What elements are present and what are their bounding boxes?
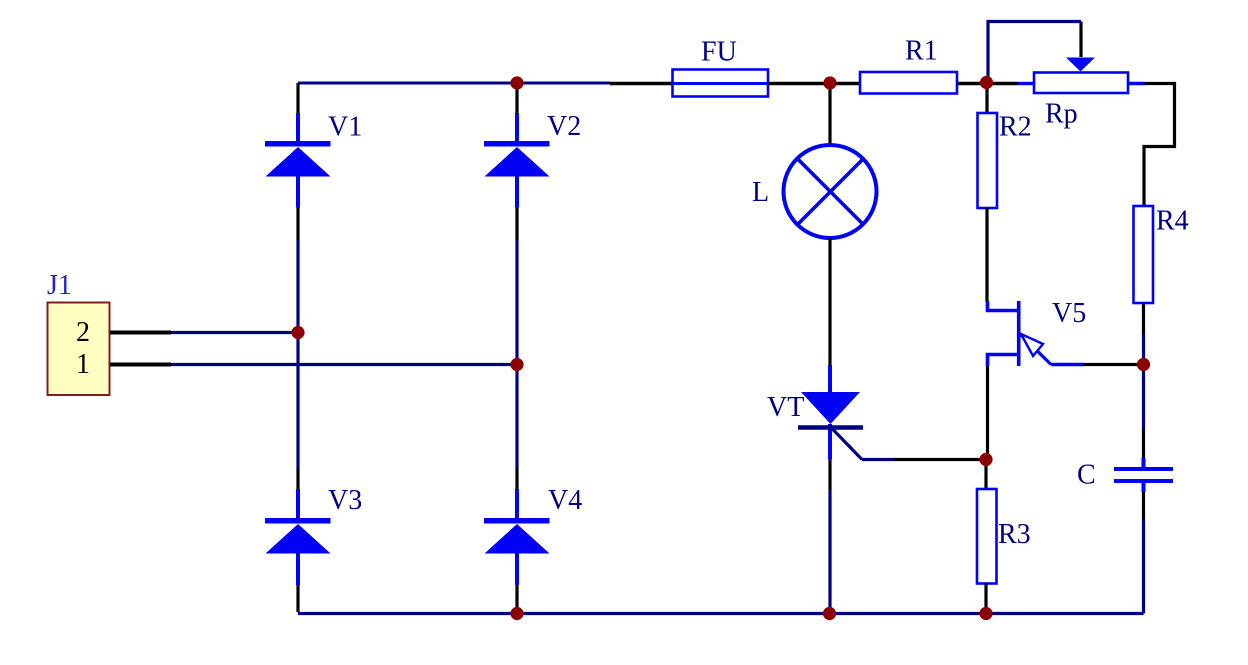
svg-text:R2: R2 bbox=[999, 112, 1032, 143]
wire: node to Rp left pin (black) bbox=[986, 82, 1018, 85]
transistor V5 (UJT) bbox=[988, 301, 1084, 366]
wire: capacitor bottom pin (black) bbox=[1142, 492, 1145, 520]
resistor R2 bbox=[978, 113, 998, 208]
wire: R4 to emitter node (navy) bbox=[1142, 334, 1145, 365]
svg-text:VT: VT bbox=[767, 392, 804, 423]
wire: emitter node to capacitor (navy then black) bbox=[1142, 365, 1145, 429]
wire: J1 pin 2 to left bridge column (navy) bbox=[171, 331, 298, 334]
svg-text:1: 1 bbox=[76, 349, 90, 380]
svg-text:V5: V5 bbox=[1052, 298, 1086, 329]
wire: VT gate horizontal (navy) bbox=[862, 458, 893, 461]
resistor R3 bbox=[977, 489, 997, 584]
wire: V3 bottom pin to bottom rail corner bbox=[296, 585, 299, 612]
wire: R2 top pin (black) bbox=[985, 83, 988, 113]
wire: FU left pin bbox=[610, 82, 672, 85]
wire: VT gate to R3 node (black) bbox=[893, 458, 986, 461]
svg-text:R1: R1 bbox=[905, 36, 938, 67]
wire: V2 bottom pin (black) bbox=[515, 208, 518, 241]
diode V1 bbox=[265, 113, 331, 208]
wire: J1 pin 1 to right bridge column (navy) bbox=[171, 363, 517, 366]
capacitor C bbox=[1114, 458, 1173, 492]
wire: Rp wiper black drop bbox=[1079, 22, 1082, 58]
svg-text:R4: R4 bbox=[1156, 206, 1189, 237]
fuse FU bbox=[673, 70, 769, 97]
junction node at top rail / V2 bbox=[510, 76, 523, 89]
wire: top loop horizontal (navy) bbox=[987, 20, 1082, 23]
wire: left bridge column middle (navy) bbox=[296, 240, 299, 468]
junction node at VT gate / R3 bbox=[979, 453, 992, 466]
wire: VT cathode pin (black) bbox=[828, 459, 831, 490]
wire: R2 bottom pin to UJT B2 (black) bbox=[985, 208, 988, 302]
wire: capacitor top pin (black) bbox=[1142, 428, 1145, 458]
wire: lamp bottom pin to VT anode (black) bbox=[828, 238, 831, 365]
junction node at emitter / R4 / C bbox=[1137, 358, 1150, 371]
svg-text:Rp: Rp bbox=[1045, 99, 1078, 130]
wire: Rp right pin stub (blue) bbox=[1128, 82, 1145, 85]
wire: V4 top pin (black) bbox=[515, 468, 518, 489]
resistor R1 bbox=[860, 72, 957, 94]
junction node at J1 pin2 / left bridge column bbox=[291, 326, 304, 339]
svg-text:FU: FU bbox=[701, 37, 737, 68]
diode V3 bbox=[265, 489, 331, 585]
svg-text:2: 2 bbox=[76, 317, 90, 348]
wire: top rail from left bridge corner to FU bbox=[298, 82, 610, 85]
wire: FU right pin to lamp node and R1 left pin bbox=[768, 82, 860, 85]
resistor R4 bbox=[1134, 206, 1154, 303]
wire: J1 pin 2 stub bbox=[110, 331, 171, 335]
wire: capacitor to bottom rail (navy) bbox=[1142, 520, 1145, 614]
wire: right bridge column V2 top pin bbox=[515, 83, 518, 113]
wire: Rp left pin stub (blue) bbox=[1018, 82, 1034, 85]
junction node at J1 pin1 / right bridge column bbox=[510, 358, 523, 371]
wire: V4 bottom pin to bottom rail bbox=[515, 585, 518, 614]
svg-text:L: L bbox=[752, 177, 769, 208]
diode V2 bbox=[484, 113, 550, 208]
junction node at bottom rail / R3 bbox=[979, 607, 992, 620]
wire: V3 top pin (black) bbox=[296, 468, 299, 489]
svg-text:V2: V2 bbox=[547, 111, 581, 142]
wire: left bridge column V1 top pin bbox=[296, 83, 299, 113]
junction node at R1 / R2 / Rp bbox=[980, 76, 993, 89]
wire: J1 pin 1 stub bbox=[110, 363, 171, 367]
wire: R4 bottom pin (black) bbox=[1142, 303, 1145, 334]
svg-text:V4: V4 bbox=[548, 485, 582, 516]
wire: bottom rail (navy) bbox=[298, 612, 1144, 615]
junction node at bottom rail / VT cathode bbox=[823, 607, 836, 620]
lamp L bbox=[784, 145, 877, 238]
wire: VT cathode to bottom rail (navy) bbox=[828, 490, 831, 614]
diode V4 bbox=[484, 489, 550, 585]
svg-text:V1: V1 bbox=[328, 112, 362, 143]
junction node at top rail / lamp bbox=[823, 76, 836, 89]
svg-text:R3: R3 bbox=[998, 519, 1031, 550]
wire: R1 right pin to node bbox=[957, 82, 986, 85]
wire: lamp top pin (black) bbox=[828, 83, 831, 146]
potentiometer Rp bbox=[1034, 58, 1128, 94]
svg-text:V3: V3 bbox=[328, 485, 362, 516]
wire: R3 bottom pin to bottom rail (black) bbox=[984, 584, 987, 614]
junction node at bottom rail / V4 bbox=[510, 607, 523, 620]
wire: Rp right to right column with jog bbox=[1144, 84, 1175, 207]
wire: UJT B1 down to gate node (black) bbox=[986, 366, 989, 460]
svg-text:C: C bbox=[1077, 460, 1096, 491]
svg-text:J1: J1 bbox=[47, 270, 72, 301]
thyristor VT bbox=[798, 365, 863, 460]
wire: V1 bottom pin (black) bbox=[296, 208, 299, 241]
wire: R3 top pin (black) bbox=[984, 460, 987, 490]
wire: top loop vertical from R1 node (navy) bbox=[986, 20, 989, 83]
connector J1 bbox=[48, 303, 110, 396]
wire: UJT emitter to C node (black) bbox=[1083, 363, 1144, 366]
wire: right bridge column middle (navy) bbox=[515, 240, 518, 468]
